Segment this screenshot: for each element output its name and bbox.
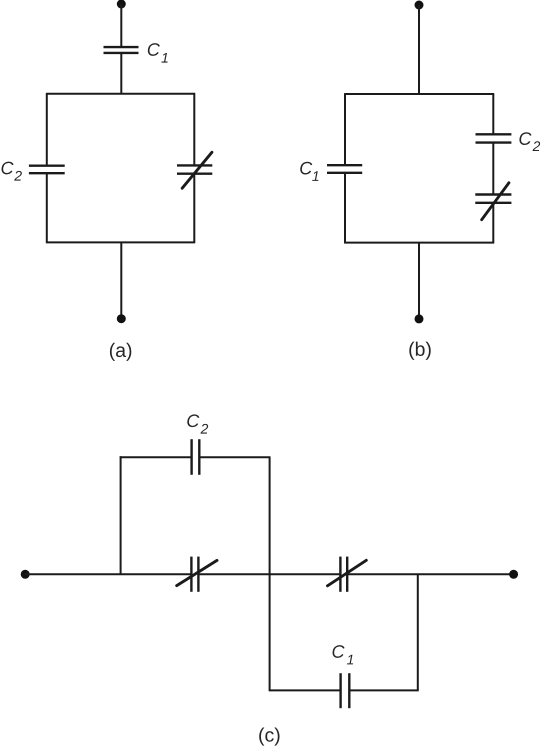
wire right edge upper segment of loop (b) xyxy=(492,94,494,134)
capacitor C2 (figure c) xyxy=(192,439,200,475)
wire top branch left segment (c) xyxy=(120,456,192,458)
wire left edge lower segment of loop (a) xyxy=(46,173,48,242)
label C2 (figure c) xyxy=(187,414,208,433)
variable capacitor (figure b) xyxy=(475,195,511,203)
wire bottom edge of loop (b) xyxy=(344,242,494,244)
label C2 (figure a) xyxy=(2,162,22,181)
wire main line right segment (c) xyxy=(347,573,513,575)
wire from loop bottom to bottom terminal (b) xyxy=(418,243,420,319)
wire left branch vertical (c) xyxy=(120,456,122,574)
node terminal top of (b) xyxy=(415,1,424,10)
variable capacitor (figure a) xyxy=(177,165,212,173)
wire right edge lower segment of loop (b) xyxy=(492,203,494,243)
wire top branch right segment (c) xyxy=(199,456,270,458)
variable capacitor left (figure c) xyxy=(191,557,198,592)
label C1 (figure b) xyxy=(300,162,318,181)
capacitor C1 (figure a) xyxy=(104,47,139,53)
wire right edge middle segment of loop (b) xyxy=(492,143,494,195)
capacitor C1 (figure b) xyxy=(327,165,362,173)
capacitor C2 (figure b) xyxy=(476,134,512,142)
wire bottom edge of loop (a) xyxy=(46,241,195,243)
wire middle vertical crossover (c) xyxy=(269,457,271,690)
label C1 (figure c) xyxy=(333,645,354,664)
label (a) xyxy=(110,343,131,361)
label C2 (figure b) xyxy=(519,132,540,151)
variable capacitor arrow slash (figure a) xyxy=(182,152,212,188)
node terminal bottom of (a) xyxy=(117,314,126,323)
wire from top terminal of (a) down to capacitor C1 xyxy=(120,4,122,47)
wire main line left segment (c) xyxy=(25,573,191,575)
node terminal left of (c) xyxy=(21,570,30,579)
wire from loop bottom to bottom terminal (a) xyxy=(120,242,122,318)
capacitor C2 (figure a) xyxy=(29,166,65,174)
variable capacitor arrow slash (figure b) xyxy=(482,183,509,220)
wire bottom branch left segment (c) xyxy=(269,689,341,691)
wire bottom branch right segment (c) xyxy=(349,689,418,691)
wire right edge lower segment of loop (a) xyxy=(193,174,195,243)
node terminal right of (c) xyxy=(509,570,518,579)
wire right edge upper segment of loop (a) xyxy=(193,94,195,166)
wire left edge lower segment of loop (b) xyxy=(344,173,346,243)
wire left edge upper segment of loop (b) xyxy=(344,94,346,165)
wire top edge of loop (b) xyxy=(344,93,494,95)
capacitor C1 (figure c) xyxy=(341,673,350,708)
variable capacitor right arrow slash (figure c) xyxy=(328,560,367,586)
wire main line middle segment (c) xyxy=(198,573,340,575)
variable capacitor left arrow slash (figure c) xyxy=(177,560,217,585)
wire from top terminal of (b) down to loop xyxy=(418,5,420,94)
wire left edge upper segment of loop (a) xyxy=(46,94,48,166)
label (c) xyxy=(259,727,279,745)
node terminal top of (a) xyxy=(117,0,126,9)
label C1 (figure a) xyxy=(148,43,168,62)
wire top edge of loop (a) xyxy=(46,93,195,95)
variable capacitor right (figure c) xyxy=(340,557,347,592)
node terminal bottom of (b) xyxy=(415,314,424,323)
label (b) xyxy=(409,342,430,360)
wire right branch vertical (c) xyxy=(417,574,419,690)
wire from capacitor C1 down to top of parallel loop (a) xyxy=(120,53,122,94)
